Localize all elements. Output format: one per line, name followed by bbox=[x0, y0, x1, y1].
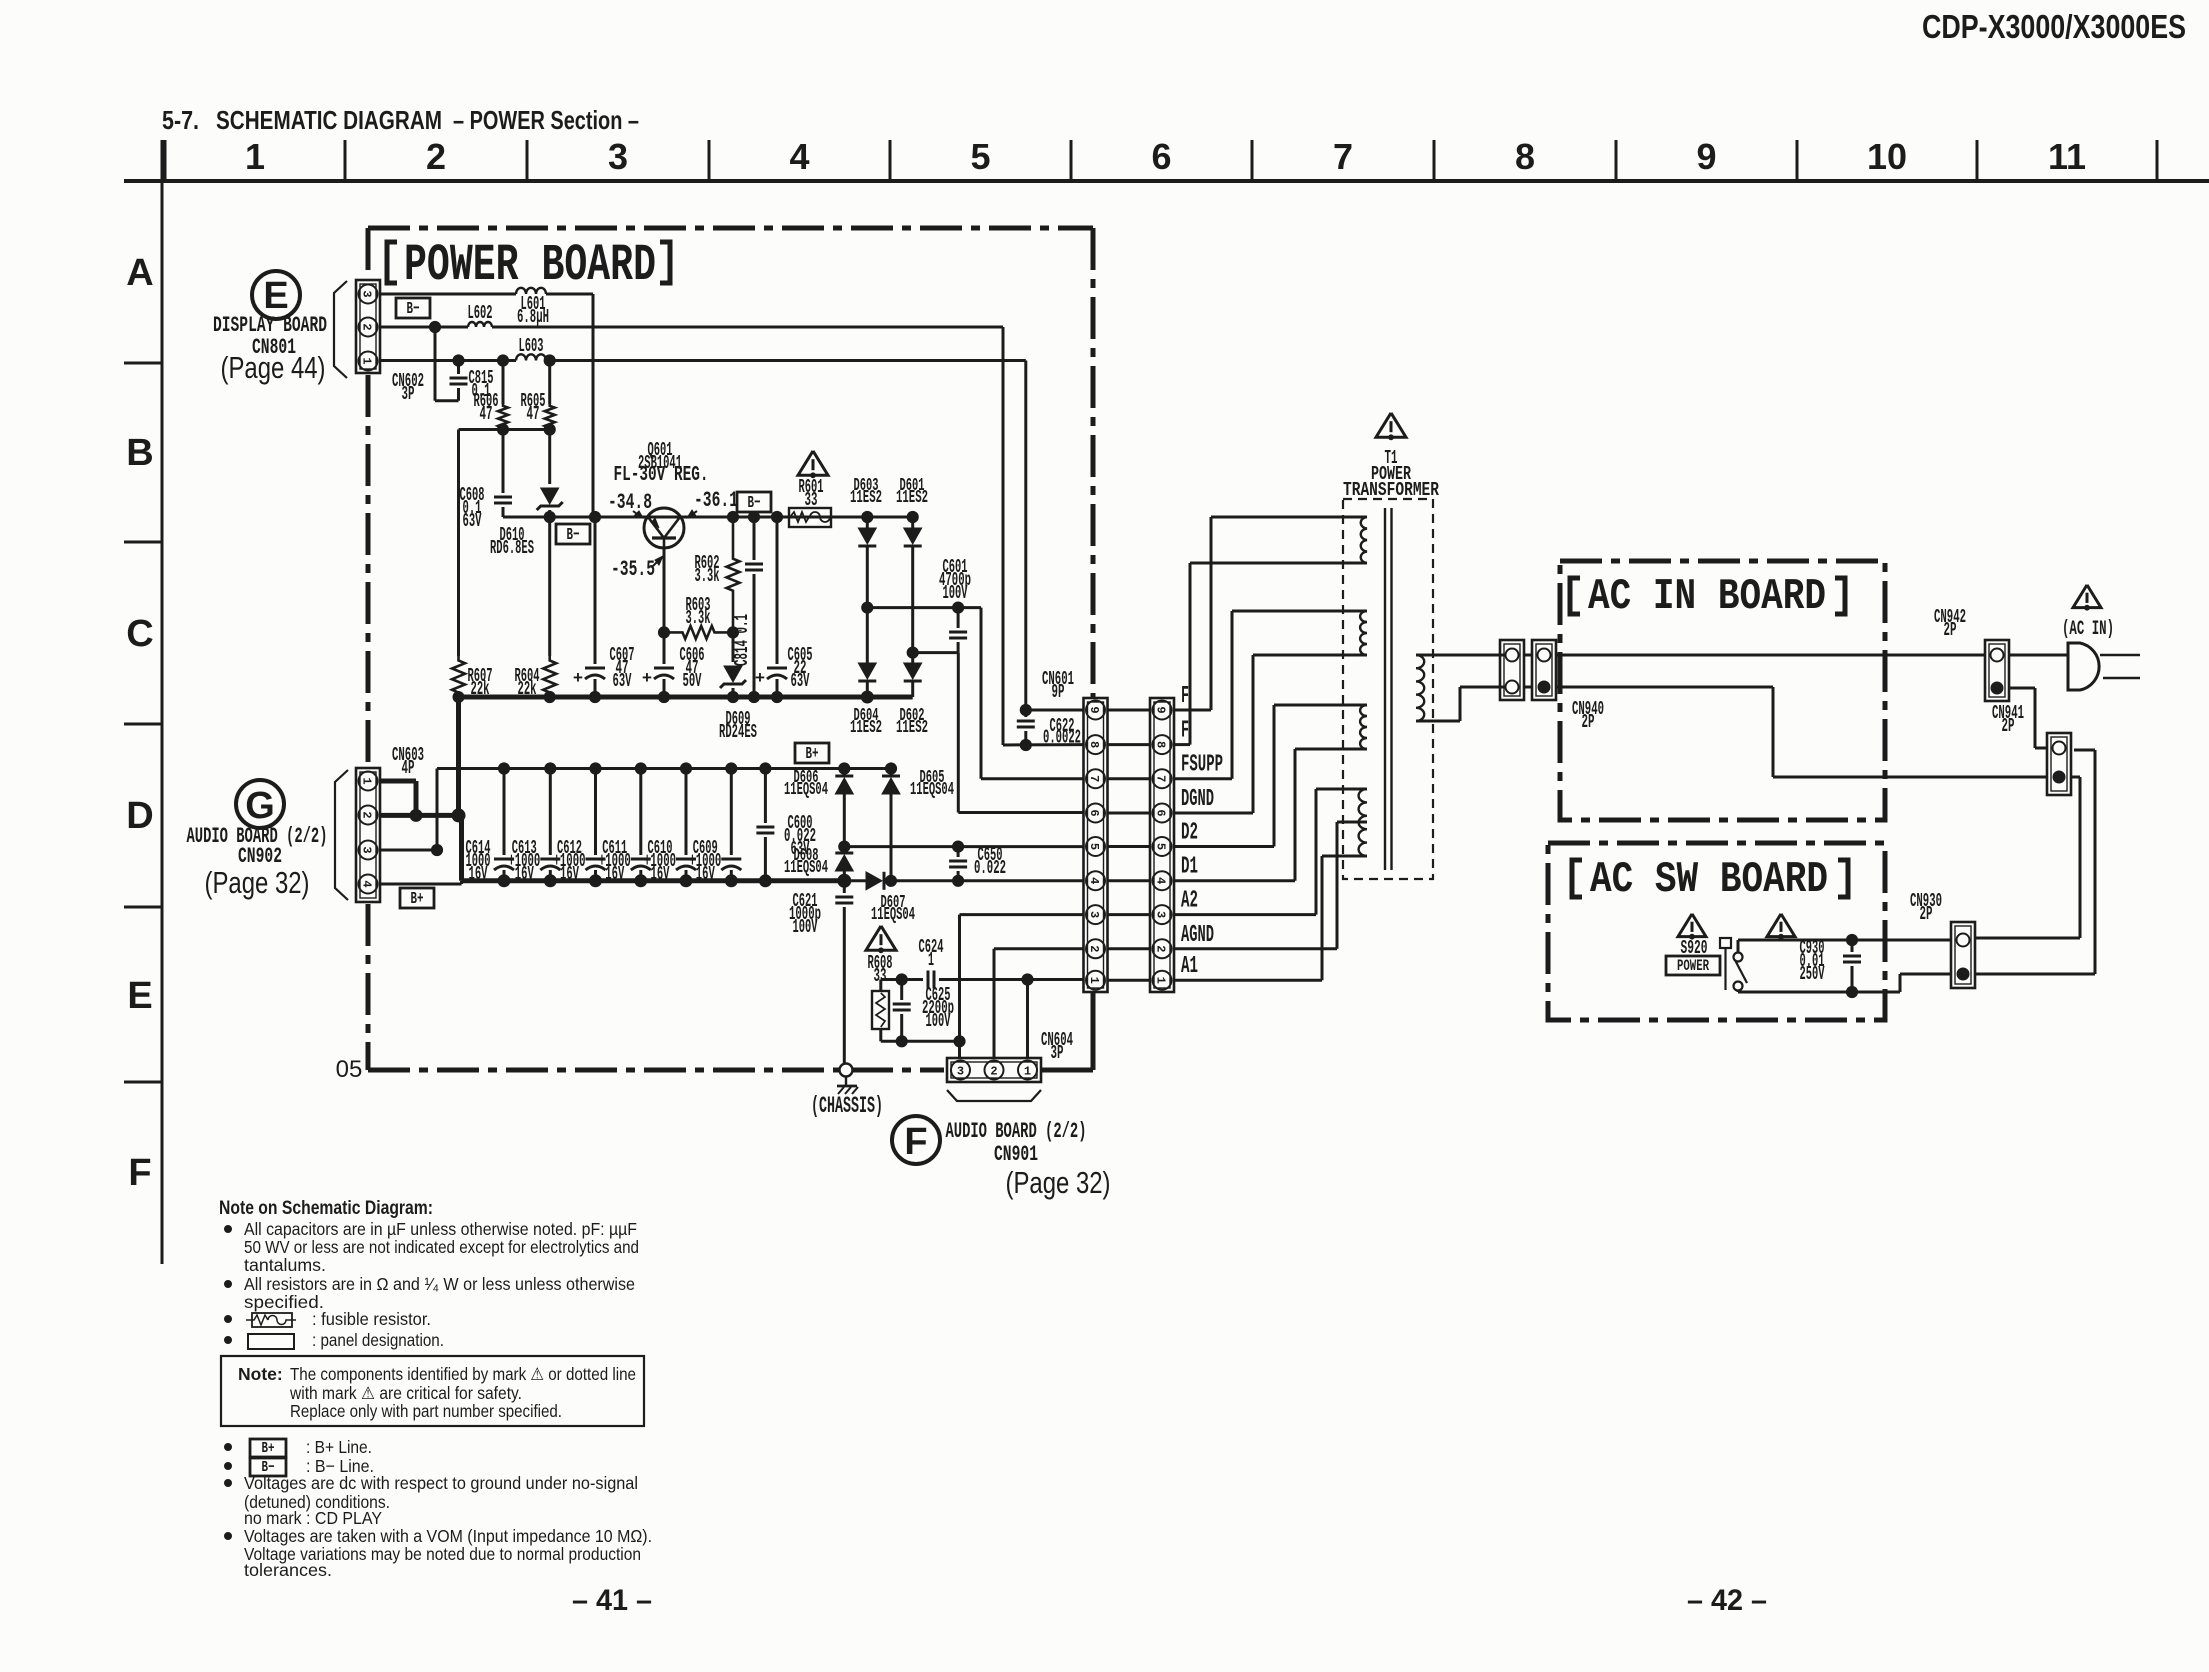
svg-text:no mark : CD PLAY: no mark : CD PLAY bbox=[244, 1508, 382, 1528]
svg-text:B−: B− bbox=[567, 526, 580, 545]
capacitor C614 1000uF bbox=[466, 769, 515, 885]
svg-text:F: F bbox=[1181, 683, 1189, 710]
column ruler line bbox=[124, 179, 2209, 183]
safety triangle R608 bbox=[866, 926, 896, 953]
svg-text:3P: 3P bbox=[402, 383, 415, 405]
svg-text:2: 2 bbox=[990, 1065, 997, 1079]
label 05 grid bbox=[336, 1056, 363, 1083]
diode D604 11ES2 bbox=[850, 608, 882, 739]
wire D603 junction row bbox=[867, 602, 1084, 779]
inductor L603 bbox=[516, 335, 546, 361]
svg-text:– POWER Section –: – POWER Section – bbox=[453, 105, 639, 135]
svg-text:1: 1 bbox=[360, 357, 374, 364]
svg-text:3: 3 bbox=[1087, 911, 1101, 918]
label CN604 3P bbox=[1041, 1029, 1073, 1064]
wire C930 to CN930 bbox=[1852, 940, 1950, 992]
svg-text:tantalums.: tantalums. bbox=[244, 1255, 326, 1275]
connector CN602 3P bbox=[356, 280, 380, 373]
svg-text:L603: L603 bbox=[519, 335, 544, 357]
page number 41 bbox=[572, 1584, 652, 1617]
svg-text:63V: 63V bbox=[463, 510, 482, 532]
audio board CN901 label bbox=[946, 1119, 1087, 1167]
transformer secondary winding 2 bbox=[1343, 611, 1367, 655]
svg-text:47: 47 bbox=[527, 403, 540, 425]
page 32 reference left bbox=[205, 865, 310, 900]
wire A1 row with C624 bbox=[881, 971, 1084, 989]
svg-text:11ES2: 11ES2 bbox=[896, 488, 928, 508]
wire D2 to T1 bbox=[1174, 705, 1343, 847]
brace for CN801 bbox=[334, 281, 347, 378]
resistor R605 bbox=[521, 355, 556, 430]
wire B- rail bbox=[503, 511, 913, 522]
connector CN930 2P bbox=[1951, 922, 1975, 988]
svg-text:AC IN BOARD: AC IN BOARD bbox=[1588, 572, 1826, 622]
page 44 reference bbox=[221, 350, 326, 385]
svg-text:33: 33 bbox=[805, 489, 818, 511]
wire base of Q601 bbox=[658, 548, 669, 638]
svg-text:AC SW BOARD: AC SW BOARD bbox=[1590, 855, 1828, 905]
capacitor C815 branch bbox=[429, 321, 493, 402]
svg-text:Voltages are dc with respect t: Voltages are dc with respect to ground u… bbox=[244, 1473, 638, 1493]
AC plug symbol bbox=[2068, 643, 2140, 690]
left border line bbox=[161, 140, 164, 1264]
label CN942 2P bbox=[1934, 606, 1966, 641]
wire under R606 R605 bbox=[459, 424, 556, 517]
svg-text:9: 9 bbox=[1154, 706, 1168, 713]
note B+ line bbox=[225, 1437, 373, 1457]
section title bbox=[162, 105, 639, 135]
AC SW board title bbox=[1572, 855, 1848, 905]
svg-text:63V: 63V bbox=[613, 670, 632, 692]
transformer secondary winding 1 bbox=[1343, 517, 1367, 563]
svg-text:2P: 2P bbox=[1582, 711, 1595, 733]
resistor R604 bbox=[515, 517, 557, 703]
svg-text:AGND: AGND bbox=[1181, 922, 1214, 949]
svg-text:+: + bbox=[573, 670, 583, 689]
wire pin9 row bbox=[1026, 709, 1084, 712]
wire DGND from C601 bottom bbox=[958, 653, 1084, 813]
connector annotation circle G bbox=[236, 780, 284, 828]
svg-text:3: 3 bbox=[957, 1065, 964, 1079]
svg-text:2: 2 bbox=[1154, 945, 1168, 952]
svg-text:11ES2: 11ES2 bbox=[850, 488, 882, 508]
svg-text:(AC IN): (AC IN) bbox=[2062, 618, 2114, 641]
svg-text:50V: 50V bbox=[683, 670, 702, 692]
svg-text:7: 7 bbox=[1333, 136, 1353, 177]
svg-text:TRANSFORMER: TRANSFORMER bbox=[1343, 479, 1439, 501]
AC SW board dashed border bbox=[1548, 843, 1885, 1020]
resistor R606 bbox=[474, 355, 509, 430]
svg-text:C: C bbox=[126, 613, 153, 655]
brace for CN902 bbox=[335, 770, 348, 900]
svg-text:9P: 9P bbox=[1052, 681, 1065, 703]
svg-text:+: + bbox=[755, 670, 765, 689]
capacitor C814 bbox=[731, 517, 763, 703]
connector annotation circle F bbox=[892, 1116, 940, 1164]
power board dashed border bbox=[368, 228, 1093, 1070]
CN601 signal labels bbox=[1181, 683, 1223, 980]
svg-text:8: 8 bbox=[1087, 741, 1101, 748]
svg-text:11EQS04: 11EQS04 bbox=[871, 905, 915, 925]
wire pin8 row bbox=[1003, 743, 1084, 746]
svg-text:5: 5 bbox=[970, 136, 990, 177]
svg-text:+: + bbox=[642, 670, 652, 689]
svg-text:B+: B+ bbox=[806, 745, 819, 764]
connector annotation circle E bbox=[252, 271, 300, 319]
svg-text:100V: 100V bbox=[926, 1010, 951, 1032]
safety triangle S920 bbox=[1678, 914, 1706, 939]
svg-text:All capacitors are in µF unles: All capacitors are in µF unless otherwis… bbox=[244, 1219, 637, 1239]
svg-text:250V: 250V bbox=[1800, 963, 1825, 985]
svg-text:6: 6 bbox=[1151, 136, 1171, 177]
wire CN930 return up bbox=[1976, 750, 2095, 974]
svg-text:D2: D2 bbox=[1181, 820, 1198, 847]
svg-text:3: 3 bbox=[1154, 911, 1168, 918]
svg-text:5: 5 bbox=[1154, 843, 1168, 850]
svg-text:100V: 100V bbox=[943, 582, 968, 604]
diode D606 11EQS04 bbox=[784, 768, 853, 852]
brace under CN604 bbox=[947, 1090, 1041, 1101]
label S920 bbox=[1681, 937, 1708, 959]
svg-text:1: 1 bbox=[360, 777, 374, 784]
svg-text:16V: 16V bbox=[560, 863, 579, 885]
svg-text:-35.5: -35.5 bbox=[611, 557, 655, 582]
svg-text:– 42 –: – 42 – bbox=[1687, 1584, 1767, 1617]
transformer T1 dashed box bbox=[1343, 499, 1433, 879]
row ticks bbox=[124, 363, 162, 1082]
svg-text:47: 47 bbox=[480, 403, 493, 425]
label C624 1 bbox=[919, 936, 944, 971]
capacitor C609 1000uF bbox=[689, 769, 741, 885]
svg-text:(Page 32): (Page 32) bbox=[1006, 1165, 1111, 1200]
safety triangle T1 bbox=[1376, 413, 1406, 440]
label CN602 3P bbox=[392, 370, 424, 405]
svg-text:5: 5 bbox=[1087, 843, 1101, 850]
svg-text:2: 2 bbox=[426, 136, 446, 177]
row letters A-F bbox=[126, 252, 153, 1194]
capacitor C601 4700p bbox=[913, 556, 971, 653]
svg-text:SCHEMATIC DIAGRAM: SCHEMATIC DIAGRAM bbox=[216, 105, 442, 135]
capacitor C622 0.0022 bbox=[1017, 704, 1081, 750]
svg-text:RD24ES: RD24ES bbox=[719, 721, 757, 743]
transformer secondary winding 4 bbox=[1343, 789, 1367, 856]
svg-text:B−: B− bbox=[407, 300, 420, 319]
AC IN board dashed border bbox=[1560, 561, 1885, 820]
label CN603 4P bbox=[392, 744, 424, 779]
note capacitors bbox=[225, 1219, 640, 1275]
column ruler ticks bbox=[165, 140, 2157, 179]
fusible resistor R601 bbox=[789, 476, 831, 527]
wire FSUPP to T1 bbox=[1174, 611, 1343, 779]
svg-text:: fusible resistor.: : fusible resistor. bbox=[312, 1309, 431, 1329]
wire primary to CN940 connectors bbox=[1433, 655, 1506, 721]
svg-text:: B+ Line.: : B+ Line. bbox=[306, 1437, 372, 1457]
label CN930 2P bbox=[1910, 890, 1942, 925]
diode D601 11ES2 bbox=[896, 476, 928, 658]
svg-text:G: G bbox=[245, 785, 275, 827]
svg-text:1: 1 bbox=[928, 949, 934, 971]
svg-text:C814 0.1: C814 0.1 bbox=[731, 614, 753, 666]
svg-text:6.8µH: 6.8µH bbox=[517, 306, 549, 328]
wire regulator ground down to B+ bus bbox=[456, 697, 461, 815]
wire R601 to diodes bbox=[831, 511, 918, 522]
svg-text:B+: B+ bbox=[262, 1440, 275, 1457]
wire A2 drop to CN604 pin3 bbox=[960, 915, 1085, 1059]
wire AC line top bbox=[1556, 654, 1984, 657]
power board title bbox=[387, 236, 670, 295]
connector CN601 9P right half bbox=[1150, 698, 1174, 992]
svg-text:3: 3 bbox=[360, 846, 374, 853]
svg-text:2P: 2P bbox=[1920, 903, 1933, 925]
svg-text:16V: 16V bbox=[515, 863, 534, 885]
svg-text:10: 10 bbox=[1867, 136, 1907, 177]
capacitor C607 bbox=[573, 517, 635, 703]
wire A1 drop to CN604 pin1 bbox=[1026, 980, 1029, 1060]
boxed label POWER bbox=[1666, 956, 1720, 975]
svg-text:2: 2 bbox=[360, 811, 374, 818]
svg-text:Note on Schematic Diagram:: Note on Schematic Diagram: bbox=[219, 1198, 433, 1219]
svg-text:1: 1 bbox=[1024, 1065, 1031, 1079]
safety note box bbox=[221, 1356, 644, 1426]
label R608 33 bbox=[868, 952, 893, 987]
label AC IN bbox=[2062, 618, 2114, 641]
svg-text:2: 2 bbox=[360, 323, 374, 330]
wire R608 bottom row bbox=[881, 1036, 965, 1047]
capacitor C608 bbox=[460, 430, 513, 532]
boxed label B- right bbox=[737, 492, 771, 513]
note voltages dc bbox=[225, 1473, 639, 1528]
wire A2 to T1 bbox=[1174, 789, 1343, 915]
svg-text:11: 11 bbox=[2048, 136, 2086, 177]
svg-text:1: 1 bbox=[245, 136, 265, 177]
boxed label B- left bbox=[556, 524, 590, 545]
capacitor C606 bbox=[642, 632, 705, 702]
svg-text:Voltages are taken with a VOM: Voltages are taken with a VOM (Input imp… bbox=[244, 1526, 652, 1546]
notes heading bbox=[219, 1198, 433, 1219]
svg-text:6: 6 bbox=[1154, 809, 1168, 816]
wire F pin8 to T1 bbox=[1174, 563, 1343, 745]
svg-text:CN901: CN901 bbox=[994, 1142, 1038, 1167]
label Q601 2SB1041 FL-30V REG bbox=[614, 439, 709, 487]
svg-text:16V: 16V bbox=[605, 863, 624, 885]
resistor R602 bbox=[695, 517, 740, 632]
svg-text:4: 4 bbox=[360, 880, 374, 887]
column numbers 1-11 bbox=[245, 136, 2086, 177]
transformer secondary winding 3 bbox=[1343, 705, 1367, 749]
connector CN603 4P bbox=[356, 768, 380, 902]
connector CN941 2P bbox=[2047, 733, 2071, 795]
svg-text:3.3k: 3.3k bbox=[686, 607, 711, 629]
resistor R607 bbox=[452, 517, 493, 703]
svg-text:4P: 4P bbox=[402, 757, 415, 779]
capacitor C600 bbox=[756, 769, 816, 881]
resistor R603 bbox=[664, 594, 739, 639]
svg-text:11ES2: 11ES2 bbox=[896, 718, 928, 738]
label CN941 2P bbox=[1992, 702, 2024, 737]
wire pin3 to L601 and down bbox=[380, 294, 593, 517]
svg-text:11EQS04: 11EQS04 bbox=[784, 780, 828, 800]
label CN601 9P bbox=[1042, 668, 1074, 703]
audio board 2/2 label bbox=[187, 824, 328, 869]
capacitor C610 1000uF bbox=[644, 769, 696, 885]
note fusible resistor symbol bbox=[225, 1309, 432, 1329]
wire CN603 pin3 to cap rail bbox=[380, 769, 462, 885]
cap bank top rail bbox=[437, 763, 891, 774]
safety triangle C930 bbox=[1767, 914, 1795, 939]
wire AC line bottom to CN941 bbox=[1556, 687, 2046, 777]
svg-text:Replace only with part number: Replace only with part number specified. bbox=[290, 1401, 562, 1421]
svg-text:D: D bbox=[126, 795, 153, 837]
inductor L602 bbox=[468, 302, 493, 327]
wire DGND to T1 bbox=[1174, 655, 1343, 813]
svg-text:9: 9 bbox=[1087, 706, 1101, 713]
svg-text:8: 8 bbox=[1515, 136, 1535, 177]
svg-text:(Page 44): (Page 44) bbox=[221, 350, 326, 385]
connector CN942 2P bbox=[1985, 640, 2009, 701]
svg-text:3: 3 bbox=[360, 290, 374, 297]
svg-text:4: 4 bbox=[1154, 877, 1168, 884]
label T1 POWER TRANSFORMER bbox=[1343, 447, 1439, 501]
voltage -34.8 with arrow bbox=[608, 490, 652, 518]
connector CN604 3P bbox=[947, 1058, 1041, 1082]
svg-text:-36.1: -36.1 bbox=[694, 488, 738, 513]
svg-text:2: 2 bbox=[1087, 945, 1101, 952]
boxed label B+ near CN603 bbox=[400, 888, 434, 909]
svg-text:RD6.8ES: RD6.8ES bbox=[490, 537, 534, 559]
connector box left of CN940 bbox=[1500, 640, 1524, 700]
transformer core bbox=[1385, 508, 1392, 870]
diode D602 11ES2 bbox=[896, 653, 928, 739]
svg-text:CDP-X3000/X3000ES: CDP-X3000/X3000ES bbox=[1922, 8, 2186, 45]
cap bank bottom rail B+ bbox=[462, 874, 851, 887]
wire CN603 pin2 B+ bus bbox=[380, 809, 465, 881]
svg-text:E: E bbox=[127, 975, 152, 1017]
wire CN942 to plug bbox=[2009, 655, 2068, 748]
svg-text:1: 1 bbox=[1154, 977, 1168, 984]
safety triangle above R601 bbox=[798, 451, 828, 478]
svg-text:2P: 2P bbox=[2002, 715, 2015, 737]
svg-text:POWER: POWER bbox=[1677, 957, 1709, 975]
diode D607 11EQS04 series bbox=[866, 872, 915, 925]
svg-text:All resistors are in Ω and ¹⁄₄: All resistors are in Ω and ¹⁄₄ W or less… bbox=[244, 1274, 635, 1294]
capacitor C625 2200p bbox=[893, 980, 954, 1047]
wires between CN601 halves bbox=[1108, 710, 1151, 980]
svg-text:11EQS04: 11EQS04 bbox=[784, 858, 828, 878]
svg-text:-34.8: -34.8 bbox=[608, 490, 652, 515]
voltage -36.1 with arrow bbox=[687, 488, 738, 518]
svg-text:05: 05 bbox=[336, 1056, 363, 1083]
svg-text:3.3k: 3.3k bbox=[695, 565, 720, 587]
diode D603 11ES2 bbox=[850, 476, 882, 613]
wire A1 to T1 bbox=[1174, 856, 1343, 980]
svg-text:: panel designation.: : panel designation. bbox=[312, 1330, 444, 1350]
svg-text:B−: B− bbox=[748, 494, 761, 513]
note voltages VOM bbox=[225, 1526, 653, 1580]
svg-text:A1: A1 bbox=[1181, 953, 1198, 980]
svg-text:16V: 16V bbox=[696, 863, 715, 885]
wire between connector boxes bbox=[1524, 655, 1532, 687]
note panel designation symbol bbox=[225, 1330, 445, 1350]
wire D1 row bbox=[844, 875, 1084, 886]
transformer primary winding bbox=[1416, 655, 1433, 721]
page 32 reference bottom bbox=[1006, 1165, 1111, 1200]
ground rail of regulator bbox=[459, 695, 913, 700]
svg-text:POWER BOARD: POWER BOARD bbox=[404, 236, 656, 295]
safety note text bbox=[238, 1364, 636, 1421]
capacitor C621 1000p bbox=[789, 881, 853, 1070]
boxed label B- near CN602 bbox=[396, 298, 430, 319]
wire pin2 long to right bbox=[380, 327, 1003, 745]
connector CN601 9P left half bbox=[1084, 698, 1108, 992]
page header model number bbox=[1922, 8, 2186, 45]
svg-text:9: 9 bbox=[1696, 136, 1716, 177]
svg-text:8: 8 bbox=[1154, 741, 1168, 748]
wire pin1 long to right bbox=[380, 361, 1026, 711]
svg-text:2P: 2P bbox=[1944, 619, 1957, 641]
svg-text:7: 7 bbox=[1154, 775, 1168, 782]
svg-text:1: 1 bbox=[1087, 977, 1101, 984]
svg-text:6: 6 bbox=[1087, 809, 1101, 816]
svg-text:FSUPP: FSUPP bbox=[1181, 752, 1223, 779]
svg-text:with mark ⚠ are critical for s: with mark ⚠ are critical for safety. bbox=[289, 1383, 522, 1403]
fusible resistor R608 bbox=[872, 980, 889, 1042]
svg-text:7: 7 bbox=[1087, 775, 1101, 782]
svg-text:E: E bbox=[263, 275, 288, 317]
wire F pin9 to T1 bbox=[1174, 517, 1343, 710]
wire CN941 down to CN930 bbox=[1976, 777, 2080, 938]
svg-text:L602: L602 bbox=[468, 302, 493, 324]
capacitor C613 1000uF bbox=[508, 769, 560, 885]
svg-text:50 WV or less are not indicate: 50 WV or less are not indicated except f… bbox=[244, 1237, 639, 1257]
svg-text:16V: 16V bbox=[651, 863, 670, 885]
inductor L601 bbox=[516, 288, 549, 328]
wire CN603 pin1 B+ jog bbox=[380, 781, 416, 815]
svg-text:F: F bbox=[1181, 718, 1189, 745]
wire AGND to T1 bbox=[1174, 822, 1343, 949]
note B- line bbox=[225, 1456, 375, 1476]
svg-text:11ES2: 11ES2 bbox=[850, 718, 882, 738]
capacitor C612 1000uF bbox=[554, 769, 606, 885]
diode D608 11EQS04 bbox=[784, 846, 853, 881]
svg-text:4: 4 bbox=[1087, 877, 1101, 884]
capacitor C611 1000uF bbox=[599, 769, 651, 885]
zener diode D610 RD6.8ES bbox=[490, 430, 563, 559]
capacitor C650 bbox=[949, 844, 1006, 881]
chassis ground bbox=[811, 1064, 883, 1120]
AC IN board title bbox=[1570, 572, 1845, 622]
svg-text:Note:: Note: bbox=[238, 1364, 283, 1384]
svg-text:– 41 –: – 41 – bbox=[572, 1584, 652, 1617]
svg-text:0.022: 0.022 bbox=[974, 857, 1006, 879]
wire switch to C930 top bbox=[1738, 934, 1858, 952]
svg-text:A2: A2 bbox=[1181, 888, 1198, 915]
svg-text:11EQS04: 11EQS04 bbox=[910, 780, 954, 800]
zener diode D609 RD24ES bbox=[719, 632, 757, 743]
voltage -35.5 with arrow bbox=[611, 556, 663, 582]
svg-text:DGND: DGND bbox=[1181, 786, 1214, 813]
connector CN940 2P bbox=[1532, 640, 1556, 700]
svg-text:AUDIO BOARD (2/2): AUDIO BOARD (2/2) bbox=[946, 1119, 1087, 1144]
svg-text:tolerances.: tolerances. bbox=[244, 1560, 332, 1580]
svg-text:F: F bbox=[904, 1121, 927, 1163]
capacitor C930 0.01 250V bbox=[1800, 937, 1862, 992]
switch S920 bbox=[1720, 938, 1747, 991]
wire D2 row bbox=[844, 841, 1084, 852]
svg-text:5-7.: 5-7. bbox=[162, 105, 199, 135]
page number 42 bbox=[1687, 1584, 1767, 1617]
wire CN604 to border right bbox=[1041, 1068, 1093, 1073]
diode D605 11EQS04 bbox=[882, 763, 954, 887]
